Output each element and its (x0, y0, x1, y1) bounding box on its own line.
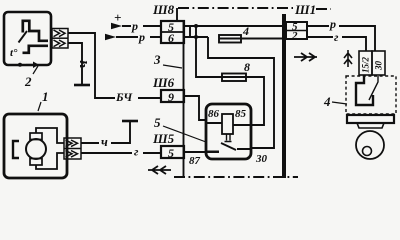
wire to fuse 8 (196, 26, 222, 77)
svg-text:Ш6: Ш6 (152, 75, 175, 90)
ignition terminal 30 (372, 51, 385, 75)
svg-text:р: р (131, 19, 138, 33)
motor stator bracket (13, 141, 19, 158)
thermal switch lower contact (23, 46, 49, 53)
thermal switch blade (19, 31, 28, 43)
ignition lock stem (357, 123, 384, 128)
motor brushes (30, 133, 42, 140)
wire Sh8-5 to Sh1-5 (184, 25, 284, 27)
svg-text:4: 4 (242, 24, 249, 38)
svg-text:6: 6 (168, 31, 174, 45)
ground bar for motor (122, 120, 138, 123)
svg-text:Ш1: Ш1 (294, 2, 316, 17)
wire Sh5 to relay 87 (184, 151, 219, 153)
arrow double right beside Sh1 (294, 53, 317, 61)
connector Sh6 cell 9 (161, 90, 184, 102)
connector Sh8 cells 5,6 (161, 21, 184, 43)
ignition terminal 15/2 (359, 51, 372, 75)
arrow double left below Sh5 (148, 166, 171, 174)
svg-text:ч: ч (101, 134, 108, 149)
svg-text:4: 4 (323, 94, 331, 109)
Sh1 cells 5,2 (286, 22, 307, 39)
svg-text:t°: t° (10, 47, 18, 59)
svg-text:86: 86 (208, 108, 220, 120)
svg-text:2: 2 (24, 74, 32, 89)
junction dots (194, 24, 198, 28)
wire Sh1-5 to ignition 30 (307, 26, 375, 51)
svg-text:г: г (134, 145, 139, 159)
junction dot on sensor bottom edge (18, 63, 22, 67)
fuse 8 (222, 74, 246, 82)
motor supply wire g (81, 152, 161, 154)
svg-text:87: 87 (189, 155, 201, 167)
mounting block bottom chain line (174, 176, 298, 178)
svg-text:5: 5 (154, 115, 161, 130)
wire fuse4 to Sh1-2 (240, 38, 284, 40)
connector Sh1 bus (282, 14, 286, 178)
motor ground wire ch (81, 122, 130, 143)
svg-text:ч: ч (75, 60, 91, 68)
svg-text:5: 5 (168, 146, 174, 160)
motor circle (26, 139, 46, 159)
wire Sh8-6 to fuse4 corner (184, 36, 208, 38)
fan motor body (component 1) (4, 114, 67, 178)
arrow p upper (122, 25, 161, 27)
wire fuse4 node down and across (208, 37, 274, 148)
ignition switch dashed box (346, 76, 396, 114)
wire sensor pin2 to ground (68, 43, 82, 84)
sensor connector pair (52, 29, 68, 49)
key hole (363, 147, 372, 156)
svg-text:Ш8: Ш8 (152, 2, 175, 17)
connector Sh5 cell 5 (161, 146, 184, 158)
svg-text:8: 8 (244, 60, 250, 74)
arrow on sensor bottom edge (26, 64, 34, 66)
svg-text:30: 30 (374, 61, 384, 72)
wire fuse8 to relay coil 85 (233, 77, 264, 125)
svg-text:1: 1 (42, 89, 49, 104)
svg-text:2: 2 (291, 30, 298, 42)
ground bar for sensor (74, 84, 90, 87)
fuse 4 (219, 35, 241, 43)
relay coil (222, 114, 233, 134)
svg-text:Ш5: Ш5 (152, 131, 175, 146)
relay 113.3747 body (206, 104, 251, 159)
motor connector pair (64, 138, 81, 159)
bracket joining cells right of Sh8 (189, 26, 191, 37)
ignition switch blade (369, 76, 378, 100)
mounting block left wall (183, 21, 185, 177)
svg-text:+: + (114, 10, 121, 25)
mounting block top chain line (178, 8, 331, 9)
arrow p lower (116, 36, 161, 38)
ignition switch moving contact (356, 76, 373, 105)
svg-text:15/2: 15/2 (361, 56, 371, 73)
relay armature link (225, 134, 232, 142)
svg-text:р: р (329, 17, 336, 31)
svg-text:3: 3 (153, 52, 161, 67)
motor wiring loop (36, 128, 64, 143)
Sh8 stub to chain (176, 8, 178, 21)
thermal switch TM-108 body (component 2) (4, 12, 51, 65)
key head (356, 131, 384, 159)
relay contact blade (221, 143, 236, 150)
svg-text:г: г (334, 30, 339, 44)
wire Sh6-9 to relay coil 86 (184, 96, 206, 120)
svg-text:85: 85 (235, 108, 247, 120)
wire sensor pin1 to block (68, 33, 161, 98)
relay fixed contacts (206, 149, 251, 152)
thermal switch upper contact (23, 21, 48, 41)
ignition lock plate (347, 115, 394, 123)
svg-text:р: р (138, 30, 145, 44)
svg-text:9: 9 (168, 90, 174, 104)
wire Sh1-2 to ignition 15/2 (307, 37, 366, 51)
svg-text:БЧ: БЧ (115, 90, 133, 104)
arrow double up near ignition switch (344, 50, 352, 67)
svg-text:30: 30 (255, 153, 268, 165)
